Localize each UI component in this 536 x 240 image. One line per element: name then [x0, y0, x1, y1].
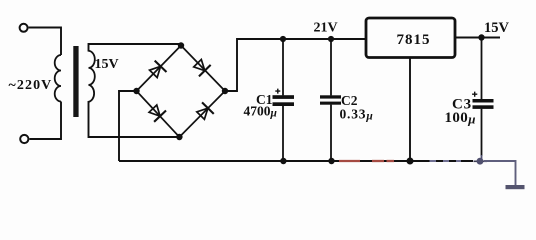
svg-text:15V: 15V	[484, 20, 510, 36]
node (C2 bottom)	[328, 158, 334, 164]
node (C1 top)	[280, 36, 286, 42]
capacitor C2	[320, 95, 341, 104]
node (C3 bottom)	[477, 158, 484, 165]
node (C1 bottom)	[280, 158, 286, 164]
wire (blue-grey artifact dashes on ground rail)	[430, 160, 462, 162]
node (bridge left)	[133, 88, 139, 94]
node (C2 top)	[328, 36, 334, 42]
wire (C2 leads)	[330, 39, 332, 161]
capacitor C1	[273, 95, 295, 106]
wire	[29, 28, 61, 56]
diode D2 (top-right edge)	[192, 57, 211, 76]
wire (U1 output)	[455, 37, 500, 39]
wire (secondary top to bridge top node)	[89, 44, 181, 52]
wire	[29, 102, 61, 140]
wire (bridge edges)	[137, 46, 226, 138]
label C1 +	[256, 89, 280, 107]
svg-text:~220V: ~220V	[9, 78, 53, 93]
wire (bridge left node to ground rail)	[119, 91, 137, 161]
wire (red artifact dashes on ground rail)	[339, 160, 394, 162]
svg-text:21V: 21V	[314, 21, 338, 36]
wire (ground rail right, faded)	[474, 160, 488, 162]
transformer T1 secondary winding	[89, 51, 95, 102]
label C3 +	[452, 92, 477, 113]
wire (bridge + output up to 21V rail)	[225, 39, 366, 91]
wire (U1 ground pin)	[409, 58, 411, 162]
diode D1 (left-top edge)	[147, 61, 166, 80]
node (bridge bottom)	[176, 134, 182, 140]
node (U1 ground)	[407, 158, 414, 165]
svg-text:7815: 7815	[397, 32, 431, 48]
svg-text:100μ: 100μ	[445, 110, 476, 127]
node (bridge right)	[222, 88, 228, 94]
regulator U1 7815	[366, 18, 455, 58]
diode D3 (left-bottom edge)	[147, 103, 166, 122]
transformer T1 core	[73, 46, 78, 117]
wire (C3 leads)	[481, 38, 483, 157]
wire (C3 lead lower tip, faded)	[481, 155, 483, 160]
node (bridge top)	[178, 42, 184, 48]
node (output / C3 top)	[478, 34, 484, 40]
wire (ground rail)	[119, 160, 473, 162]
diode D4 (bottom-right edge)	[195, 102, 214, 121]
ground	[506, 185, 525, 189]
svg-text:15V: 15V	[95, 57, 119, 72]
transformer T1 primary winding	[55, 55, 61, 102]
wire (secondary bottom to bridge bottom node)	[89, 101, 178, 137]
terminal J1 (AC input top)	[20, 24, 28, 32]
wire (C1 leads)	[282, 39, 284, 161]
terminal J2 (AC input bottom)	[20, 135, 28, 143]
capacitor C3	[473, 99, 494, 109]
